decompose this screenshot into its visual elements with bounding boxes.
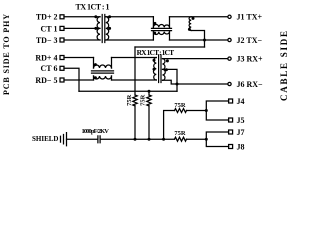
junction R3 column on rail [162, 138, 165, 141]
choke L1 bottom winding [153, 32, 169, 35]
transformer T2 RX 1CT:1CT primary winding [153, 58, 156, 81]
junction RX CT rail and R2 column [148, 90, 151, 93]
choke L2 top winding [94, 65, 112, 68]
junction T3 drop on J2 wire [203, 39, 206, 42]
wire RD+ to choke L2 [64, 57, 94, 59]
transformer T2 core [159, 55, 161, 83]
wire RX termination column upper [148, 91, 150, 95]
wire RD- to choke L2 [64, 79, 94, 81]
svg-text:75R: 75R [174, 102, 186, 109]
svg-text:TD− 3: TD− 3 [36, 36, 58, 45]
pin J3 RX+ [228, 57, 231, 60]
svg-text:1000pF/2KV: 1000pF/2KV [81, 128, 109, 135]
svg-text:CT 1: CT 1 [41, 24, 58, 33]
wire T1 secondary top to choke L1 [106, 16, 154, 18]
wire J7 J8 bracket [206, 132, 228, 147]
wire R3 column [164, 111, 175, 140]
junction J4 J5 bracket [205, 109, 208, 112]
wire CT6 stub [64, 68, 79, 91]
wire TX termination column upper [134, 47, 136, 95]
choke L1 polarity dot bottom [153, 32, 156, 35]
transformer T1 polarity dot primary upper [94, 15, 97, 18]
transformer T1 polarity dot primary lower [94, 27, 97, 30]
svg-text:J1 TX+: J1 TX+ [237, 13, 263, 22]
svg-text:RX 1CT : 1CT: RX 1CT : 1CT [137, 48, 175, 57]
junction tap drop on J6 wire [176, 83, 179, 86]
pin J2 TX- [228, 38, 231, 41]
wire T1 secondary bottom to choke L1 [106, 39, 154, 41]
wire T2 secondary bottom to J6 [163, 80, 228, 84]
svg-text:J8: J8 [237, 142, 245, 151]
choke L1 polarity dot top [153, 22, 156, 25]
resistor R2 75R [147, 95, 151, 106]
wire CT to T1 tap [64, 27, 100, 29]
svg-text:TD+ 2: TD+ 2 [36, 13, 58, 22]
wire choke L1 to J2 [170, 39, 228, 41]
choke L2 polarity dot bottom [94, 76, 97, 79]
wire TX termination line [135, 46, 205, 48]
transformer T2 polarity dot primary lower [153, 68, 156, 71]
junction J7 J8 bracket [205, 138, 208, 141]
autotransformer T3 dot bottom [188, 28, 191, 31]
choke L2 core [92, 71, 114, 73]
choke L1 top winding [153, 24, 169, 27]
svg-text:SHIELD: SHIELD [32, 135, 58, 143]
transformer T1 TX 1CT:1 primary winding [97, 17, 100, 40]
pin J5 [229, 118, 233, 122]
svg-text:TX 1CT : 1: TX 1CT : 1 [76, 3, 110, 12]
choke L1 right verticals [169, 17, 171, 40]
svg-text:RD− 5: RD− 5 [35, 76, 57, 85]
resistor R1 75R [133, 95, 137, 106]
transformer T2 polarity dot secondary tap [165, 68, 168, 71]
junction R1 on rail [134, 138, 137, 141]
transformer T1 polarity dot secondary upper [108, 15, 111, 18]
wire TX termination column lower [134, 106, 136, 139]
pin J1 TX+ [228, 15, 231, 18]
svg-text:J7: J7 [237, 128, 245, 137]
wire choke L2 to T2 bottom [112, 79, 157, 81]
svg-text:75R: 75R [140, 94, 147, 106]
wire J4 J5 bracket [206, 101, 228, 120]
choke L1 core [152, 28, 172, 30]
shield chassis ground symbol [61, 133, 67, 146]
junction R2 on rail [148, 138, 151, 141]
wire TD+ to T1 [64, 16, 100, 18]
capacitor C1 1000pF/2KV [98, 136, 100, 143]
svg-text:CABLE SIDE: CABLE SIDE [279, 31, 289, 101]
pin J4 [229, 99, 233, 103]
pin J7 [229, 130, 233, 134]
autotransformer T3 dot top [192, 17, 195, 20]
wire T2 secondary top to J3 [163, 58, 228, 60]
wire shield to capacitor [67, 138, 98, 140]
resistor R3 75R [175, 109, 187, 113]
svg-text:CT 6: CT 6 [41, 64, 58, 73]
pin J6 RX- [228, 82, 231, 85]
svg-text:PCB SIDE TO PHY: PCB SIDE TO PHY [2, 14, 11, 95]
wire T3 bottom to termination [191, 31, 204, 48]
wire ground rail [100, 138, 174, 140]
svg-text:J2 TX−: J2 TX− [237, 36, 263, 45]
choke L2 polarity dot top [94, 63, 97, 66]
wire R4 to J7 J8 bracket [187, 138, 207, 140]
wire T2 secondary center tap [163, 69, 178, 91]
svg-text:75R: 75R [126, 94, 133, 106]
wire TD- to T1 [64, 39, 100, 41]
choke L2 right verticals [111, 58, 113, 81]
transformer T1 secondary winding [106, 17, 109, 40]
svg-text:J5: J5 [237, 116, 245, 125]
wire choke L1 to J1 [170, 16, 228, 18]
transformer T2 polarity dot primary upper [153, 59, 156, 62]
pin J8 [229, 145, 233, 149]
autotransformer T3 winding [189, 17, 191, 31]
svg-text:J6 RX−: J6 RX− [237, 80, 264, 89]
choke L2 bottom winding [94, 76, 112, 79]
wire RX CT rail [79, 90, 177, 92]
wire choke L2 to T2 top [112, 57, 157, 59]
svg-text:J4: J4 [237, 97, 245, 106]
choke L2 left verticals [93, 58, 95, 81]
resistor R4 75R [175, 137, 187, 141]
svg-text:J3 RX+: J3 RX+ [237, 55, 264, 64]
svg-text:75R: 75R [174, 130, 186, 137]
svg-text:RD+ 4: RD+ 4 [35, 53, 57, 62]
choke L1 left verticals [152, 17, 154, 40]
wire RX termination column lower [148, 106, 150, 139]
transformer T1 core [102, 15, 105, 43]
transformer T1 polarity dot secondary lower [108, 27, 111, 30]
transformer T2 secondary winding [163, 59, 166, 81]
wire R3 to J4 J5 bracket [187, 110, 207, 112]
transformer T2 polarity dot secondary upper [166, 59, 169, 62]
